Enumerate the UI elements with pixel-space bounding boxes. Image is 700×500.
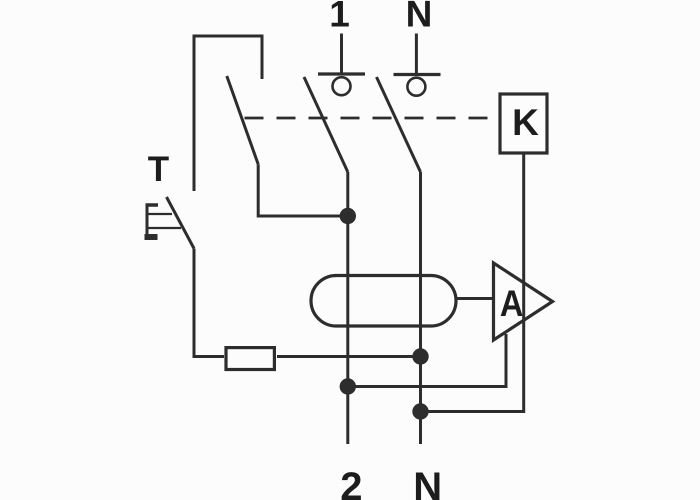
node A junction dot conductor 1	[340, 208, 356, 224]
wire relay K to node D	[421, 153, 524, 412]
test button actuator bracket	[145, 204, 182, 238]
amplifier A triangle	[494, 263, 553, 340]
svg-text:K: K	[512, 102, 539, 143]
switch blade pole N	[377, 77, 421, 172]
wire conductor 1 vertical	[346, 172, 349, 444]
wire conductor N vertical	[419, 172, 422, 444]
wire test button to resistor	[194, 249, 224, 357]
wire terminal 1 lead	[340, 34, 343, 75]
wire auxiliary branch top hook	[194, 36, 262, 191]
wire amplifier bottom stub to node C	[348, 334, 506, 387]
terminal N socket circle	[407, 78, 425, 96]
switch blade test button	[167, 197, 195, 249]
node D junction dot conductor N	[412, 403, 428, 419]
switch blade auxiliary contact	[227, 76, 258, 164]
svg-text:N: N	[406, 0, 433, 35]
node B junction dot conductor N	[412, 348, 428, 364]
svg-text:N: N	[413, 465, 442, 500]
switch blade pole 1	[304, 77, 348, 172]
node C junction dot conductor 2	[340, 378, 356, 394]
resistor R test	[226, 348, 274, 370]
wire terminal N lead	[415, 34, 418, 75]
current transformer toroid	[311, 276, 456, 327]
wire auxiliary contact to node A	[258, 164, 348, 216]
terminal 1 socket circle	[333, 77, 351, 95]
terminal N plug-in contact bar	[394, 73, 441, 76]
wire toroid output to amplifier	[456, 297, 492, 300]
dashed mechanical trip link	[245, 117, 492, 120]
svg-text:A: A	[500, 283, 524, 324]
wire resistor to node B	[277, 355, 421, 358]
terminal 1 plug-in contact bar	[318, 72, 365, 75]
relay coil box K	[500, 94, 547, 153]
svg-text:T: T	[148, 150, 169, 189]
svg-text:2: 2	[340, 465, 362, 500]
svg-text:1: 1	[329, 0, 350, 35]
